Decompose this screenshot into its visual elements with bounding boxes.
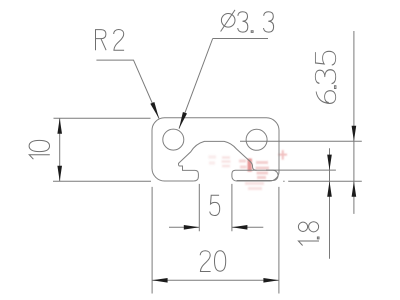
arrow leader R2 <box>150 102 161 119</box>
arrow leader dia3.3 <box>177 112 187 129</box>
watermark plus mark <box>278 150 287 160</box>
part outer outline (rounded rect with slot gap in bottom edge) <box>152 118 279 181</box>
arrowheads <box>57 102 356 283</box>
watermark glyph strokes left <box>222 158 231 167</box>
arrow 10 up <box>57 118 62 134</box>
dim 5: extension lines <box>199 184 232 231</box>
arrow 6.35 bottom (points up) <box>352 181 357 197</box>
text 10 (rotated) <box>29 140 50 159</box>
dim 6.35: dimension line <box>353 31 355 214</box>
dim 1.8: extension lines <box>266 170 362 181</box>
dimension lines and extension lines <box>53 31 362 294</box>
leader R2 <box>96 60 159 118</box>
arrow 1.8 bottom (points up) <box>327 181 332 197</box>
text R2 <box>96 30 125 51</box>
watermark faint mark far left <box>209 157 217 163</box>
text 20 <box>200 251 226 272</box>
dim 10: dimension line <box>59 118 61 181</box>
dim 10: extension lines <box>53 118 151 181</box>
leader dia 3.3 <box>179 39 268 129</box>
arrow 20 left <box>152 278 168 283</box>
watermark strokes beside bar <box>239 161 247 167</box>
diameter symbol <box>221 13 235 27</box>
hole right <box>246 129 267 150</box>
arrow 1.8 top (points down) <box>327 155 332 171</box>
dim 5: dimension line segments <box>169 226 263 228</box>
arrow 5 left (outside, points right) <box>184 225 200 230</box>
text 3.3 of diameter label <box>238 12 274 33</box>
dim 20: extension lines <box>152 187 279 294</box>
dim 20: dimension line <box>152 279 279 281</box>
text 1.8 (rotated) <box>298 222 319 246</box>
watermark glyph strokes right <box>256 163 270 178</box>
watermark dark vertical bar <box>247 159 251 172</box>
text 6.35 (rotated) <box>315 51 336 103</box>
arrow 5 right (outside, points left) <box>232 225 248 230</box>
arrow 6.35 top (points down) <box>352 126 357 142</box>
watermark faint strokes below part <box>245 184 264 189</box>
inner cavity: left slot wall, beak, dome, right diagonal <box>178 141 256 181</box>
hole left <box>163 129 184 150</box>
arrow 20 right <box>263 278 279 283</box>
inner cavity: right slot wall, right wing with rounded cap <box>232 170 278 181</box>
dim 6.35: extension line (hole centerline) <box>240 140 362 142</box>
part geometry <box>152 118 279 181</box>
dim 1.8: dimension line <box>329 148 331 258</box>
arrow 10 down <box>57 166 62 182</box>
text 5 <box>210 195 220 215</box>
